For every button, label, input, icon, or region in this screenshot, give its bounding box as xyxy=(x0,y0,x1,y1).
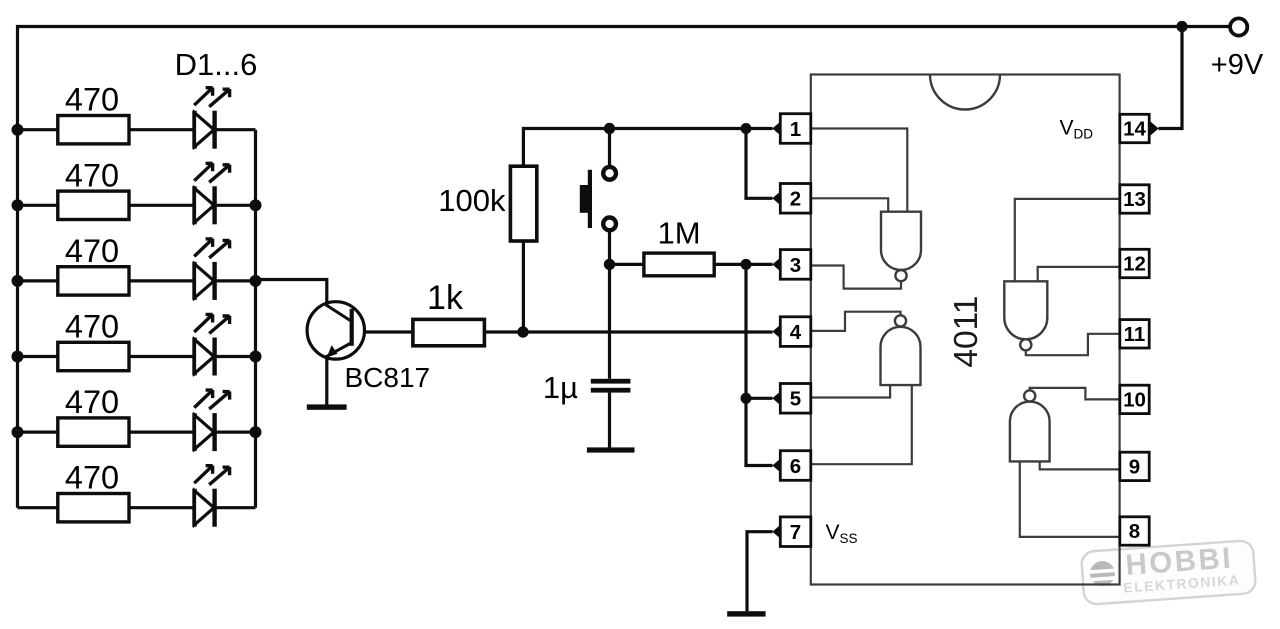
terminal +9V xyxy=(1211,18,1264,81)
pin 11 xyxy=(1120,320,1149,348)
label D1...6 xyxy=(175,47,258,82)
wire pin6 to gate B input xyxy=(810,385,912,464)
svg-text:12: 12 xyxy=(1123,253,1146,276)
node left bus row 1 xyxy=(12,124,24,136)
wire button bottom xyxy=(608,232,611,264)
wire junction to pin 4 xyxy=(523,330,773,333)
svg-text:4: 4 xyxy=(790,321,802,344)
wire pin1 to gate A input xyxy=(810,129,908,213)
wire to pin 5 xyxy=(746,397,773,400)
resistor 470 R4 xyxy=(18,309,130,371)
watermark HOBBI ELEKTRONIKA xyxy=(1081,540,1256,605)
LED D6 xyxy=(129,466,256,527)
wire gate D input to pin 8 xyxy=(1020,461,1121,537)
svg-text:470: 470 xyxy=(65,384,119,420)
node pin5 junction xyxy=(741,393,752,404)
svg-text:1: 1 xyxy=(790,118,801,141)
resistor 470 R2 xyxy=(18,157,130,219)
svg-text:5: 5 xyxy=(790,388,801,411)
wire button top xyxy=(608,129,611,166)
node left bus row 4 xyxy=(12,351,24,363)
node pin3 junction xyxy=(741,259,752,270)
LED D3 xyxy=(129,239,256,300)
wire emitter to ground xyxy=(325,355,328,405)
wire pin2 to gate A input xyxy=(810,198,889,212)
wire pin5 to gate B input xyxy=(810,385,891,397)
svg-text:1k: 1k xyxy=(427,279,464,317)
LED D1 xyxy=(129,88,256,149)
wire gate D output to pin 10 xyxy=(1030,388,1121,400)
resistor 100k xyxy=(438,166,537,241)
wire 1M to pin3 node xyxy=(714,263,746,266)
svg-text:4011: 4011 xyxy=(948,296,985,368)
label VSS xyxy=(826,521,858,546)
wire +9V down to pin 14 xyxy=(1159,27,1183,129)
gate B NAND xyxy=(881,315,921,385)
resistor 470 R1 xyxy=(18,82,130,144)
wire gate D input to pin 9 xyxy=(1040,461,1121,469)
gate D NAND xyxy=(1010,390,1050,461)
svg-text:470: 470 xyxy=(65,157,119,193)
node LED bus row 3 xyxy=(250,275,262,287)
IC U1 4011 body xyxy=(811,75,1120,585)
pin 8 xyxy=(1120,517,1149,545)
resistor 470 R3 xyxy=(18,233,130,295)
svg-text:BC817: BC817 xyxy=(345,362,431,393)
wire to 1M xyxy=(610,263,644,266)
resistor 1M xyxy=(644,216,714,276)
wire LED bus xyxy=(254,130,257,508)
node left bus row 3 xyxy=(12,275,24,287)
node LED bus row 2 xyxy=(250,199,262,211)
pin 6 xyxy=(772,451,811,481)
svg-text:10: 10 xyxy=(1123,389,1146,412)
wire base xyxy=(364,330,413,333)
svg-text:13: 13 xyxy=(1123,188,1146,211)
svg-text:470: 470 xyxy=(65,309,119,345)
svg-text:1µ: 1µ xyxy=(543,370,578,405)
svg-text:470: 470 xyxy=(65,82,119,118)
wire pin12 to gate C input xyxy=(1038,267,1121,281)
pin 10 xyxy=(1120,385,1149,413)
svg-text:14: 14 xyxy=(1123,118,1146,141)
capacitor C1 1u xyxy=(543,370,631,405)
node pin1 bus junction xyxy=(741,123,752,134)
wire gate A output to pin 3 xyxy=(810,266,902,289)
resistor 1k xyxy=(413,279,485,346)
pushbutton S1 xyxy=(580,167,616,230)
node 1k/100k junction xyxy=(517,326,528,337)
resistor 470 R5 xyxy=(18,384,130,446)
wire left bus xyxy=(16,25,19,508)
node left bus row 5 xyxy=(12,426,24,438)
svg-text:11: 11 xyxy=(1124,323,1146,346)
svg-text:470: 470 xyxy=(65,460,119,496)
pin 5 xyxy=(772,384,811,414)
wire 1M node to pin 3 xyxy=(746,263,773,266)
node button top junction xyxy=(604,123,615,134)
node LED bus row 4 xyxy=(250,351,262,363)
node button/1M junction xyxy=(604,259,615,270)
node LED bus row 5 xyxy=(250,426,262,438)
wire pin1 to pin2 xyxy=(746,129,773,199)
svg-text:470: 470 xyxy=(65,233,119,269)
svg-text:3: 3 xyxy=(790,254,801,277)
svg-text:D1...6: D1...6 xyxy=(175,47,258,82)
pin 9 xyxy=(1120,452,1149,480)
LED D2 xyxy=(129,163,256,224)
LED D4 xyxy=(129,314,256,375)
pin 7 xyxy=(772,517,811,547)
svg-text:8: 8 xyxy=(1129,520,1140,543)
wire gate B output to pin 4 xyxy=(810,312,901,331)
svg-text:+9V: +9V xyxy=(1211,49,1264,81)
gate A NAND xyxy=(881,212,921,282)
wire pin13 to gate C input xyxy=(1015,199,1121,281)
transistor Q1 BC817 xyxy=(307,302,430,393)
pin 14 xyxy=(1120,114,1159,142)
svg-text:7: 7 xyxy=(790,521,801,544)
wire pin3 to pin5 pin6 bus xyxy=(746,264,773,465)
wire 1k to junction xyxy=(483,330,523,333)
wire gate C output to pin 11 xyxy=(1026,334,1121,355)
wire rail to pin 1 xyxy=(610,127,773,130)
wire LED bus to collector xyxy=(256,280,327,307)
wire pin 7 to ground xyxy=(747,532,773,612)
ground transistor emitter xyxy=(307,404,347,409)
wire cap bottom xyxy=(608,393,611,448)
LED D5 xyxy=(129,390,256,451)
gate C NAND xyxy=(1004,281,1047,350)
node left bus row 2 xyxy=(12,199,24,211)
ground capacitor xyxy=(587,447,635,452)
label VDD xyxy=(1060,117,1094,142)
svg-text:100k: 100k xyxy=(438,183,506,218)
svg-text:1M: 1M xyxy=(657,216,700,251)
pin 4 xyxy=(772,317,811,347)
ground pin 7 Vss xyxy=(727,611,765,616)
svg-text:2: 2 xyxy=(790,188,801,211)
wire cap top xyxy=(608,264,611,378)
pin 1 xyxy=(772,114,811,144)
wire top +9V rail xyxy=(16,25,1230,28)
svg-text:9: 9 xyxy=(1129,456,1140,479)
resistor 470 R6 xyxy=(18,460,130,522)
pin 13 xyxy=(1120,185,1149,213)
pin 12 xyxy=(1120,249,1149,277)
pin 3 xyxy=(772,250,811,280)
node +9V junction xyxy=(1176,21,1187,32)
pin 2 xyxy=(772,184,811,214)
svg-text:6: 6 xyxy=(790,455,801,478)
wire 100k top xyxy=(523,129,609,331)
